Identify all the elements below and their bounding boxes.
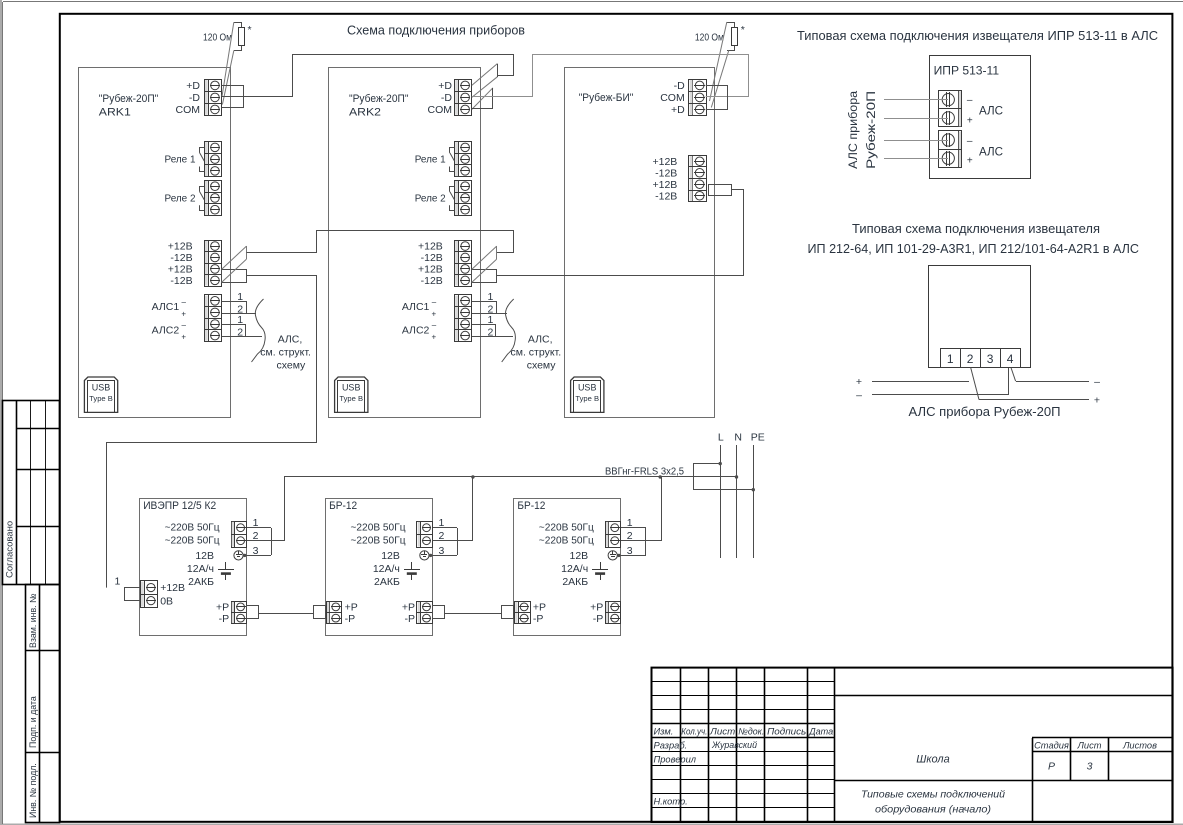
svg-text:Реле 1: Реле 1 bbox=[165, 154, 196, 166]
svg-text:-12В: -12В bbox=[421, 275, 443, 287]
svg-text:см. структ.: см. структ. bbox=[260, 347, 311, 359]
detector box ИП bbox=[929, 266, 1031, 368]
svg-text:"Рубеж-20П": "Рубеж-20П" bbox=[99, 93, 159, 105]
svg-text:Журавский: Журавский bbox=[711, 740, 757, 750]
earth terminal ИВЭПР 12/5 К2 bbox=[234, 551, 243, 560]
svg-text:Листов: Листов bbox=[1122, 741, 1157, 751]
svg-text:Р: Р bbox=[1048, 761, 1055, 773]
svg-text:USB: USB bbox=[342, 383, 361, 393]
svg-text:1: 1 bbox=[439, 517, 445, 529]
sidebar upper table bbox=[3, 401, 60, 585]
svg-text:~220В 50Гц: ~220В 50Гц bbox=[351, 522, 406, 534]
battery symbol ИВЭПР 12/5 К2 bbox=[225, 562, 227, 570]
title block grid left bbox=[680, 668, 682, 822]
junction dot L bbox=[719, 462, 722, 465]
wire - left bbox=[872, 394, 1009, 396]
svg-text:Лист: Лист bbox=[709, 727, 735, 737]
svg-text:Type B: Type B bbox=[339, 394, 363, 403]
terminal strip ИП bbox=[941, 349, 1021, 368]
junction dot earth БР-12 bbox=[429, 554, 432, 557]
PSU box ИВЭПР 12/5 К2 bbox=[140, 499, 247, 636]
wire +12В box1 to box2 bbox=[247, 231, 514, 253]
svg-text:ВВГнг-FRLS 3х2,5: ВВГнг-FRLS 3х2,5 bbox=[605, 466, 684, 477]
line PE bbox=[753, 445, 755, 558]
svg-text:+Р: +Р bbox=[402, 602, 415, 614]
svg-text:+: + bbox=[432, 309, 437, 318]
svg-text:3: 3 bbox=[987, 352, 994, 366]
terminal block ИПР bbox=[939, 91, 962, 127]
twisted pair +12В box1 bbox=[222, 246, 247, 269]
svg-text:–: – bbox=[182, 321, 187, 330]
svg-text:АЛС прибора Рубеж-20П: АЛС прибора Рубеж-20П bbox=[909, 405, 1061, 419]
svg-text:Реле 2: Реле 2 bbox=[415, 192, 446, 204]
svg-text:+12В: +12В bbox=[418, 241, 443, 253]
terminal block ~220В БР-12 bbox=[417, 522, 433, 548]
bracket БР-12 bbox=[645, 528, 647, 555]
relay 2 contact symbol (2) bbox=[450, 187, 455, 192]
svg-text:+: + bbox=[967, 156, 973, 167]
twisted pair symbol box2 X1 bbox=[472, 64, 498, 86]
svg-text:см. структ.: см. структ. bbox=[511, 347, 562, 359]
bracket ИВЭПР 12/5 К2 bbox=[271, 528, 273, 555]
relay 1 contact symbol bbox=[200, 148, 205, 153]
svg-text:2: 2 bbox=[967, 352, 974, 366]
slant from terminal 2 bbox=[971, 367, 979, 399]
wire -12В box2 to box3 bbox=[497, 190, 744, 276]
svg-text:Н.котр.: Н.котр. bbox=[654, 796, 688, 806]
svg-text:Типовая схема подключения изве: Типовая схема подключения извещателя ИПР… bbox=[797, 28, 1158, 43]
slant from terminal 4 bbox=[1011, 368, 1016, 382]
svg-text:Школа: Школа bbox=[916, 753, 950, 765]
svg-text:+12В: +12В bbox=[418, 264, 443, 276]
svg-text:-Р: -Р bbox=[345, 613, 356, 625]
terminal block +12В/0В ИВЭПР bbox=[141, 581, 158, 608]
resistor leads (2) bbox=[727, 23, 735, 28]
svg-text:COM: COM bbox=[176, 104, 201, 116]
АЛС wires box1 bbox=[222, 302, 247, 314]
svg-text:12А/ч: 12А/ч bbox=[187, 563, 214, 575]
terminal block +12В/-12В bbox=[205, 241, 222, 287]
svg-text:Дата: Дата bbox=[808, 727, 833, 737]
svg-text:12В: 12В bbox=[570, 550, 589, 562]
svg-text:АЛС прибора: АЛС прибора bbox=[848, 90, 860, 169]
junction dot earth БР-12 bbox=[617, 554, 620, 557]
svg-text:АЛС: АЛС bbox=[979, 144, 1003, 158]
line N bbox=[736, 445, 738, 558]
svg-text:-D: -D bbox=[441, 92, 452, 104]
svg-text:+: + bbox=[1094, 394, 1100, 406]
svg-text:–: – bbox=[1094, 376, 1100, 388]
svg-text:Реле 1: Реле 1 bbox=[415, 154, 446, 166]
PSU box БР-12 bbox=[514, 499, 621, 636]
svg-text:АЛС1: АЛС1 bbox=[402, 301, 430, 313]
svg-text:–: – bbox=[967, 95, 973, 106]
USB port box1 bbox=[84, 377, 117, 412]
cable box right БР-12 bbox=[433, 606, 445, 619]
svg-text:PE: PE bbox=[751, 431, 765, 443]
svg-text:ИПР 513-11: ИПР 513-11 bbox=[934, 64, 1000, 78]
terminal block +Р/-Р right БР-12 bbox=[417, 602, 433, 624]
svg-text:2АКБ: 2АКБ bbox=[374, 576, 400, 588]
svg-text:+12В: +12В bbox=[168, 241, 193, 253]
svg-text:~220В 50Гц: ~220В 50Гц bbox=[539, 535, 594, 547]
svg-text:2: 2 bbox=[237, 326, 243, 338]
svg-text:ИВЭПР 12/5 К2: ИВЭПР 12/5 К2 bbox=[143, 500, 216, 512]
twisted pair to X1 box3 bbox=[710, 22, 727, 101]
wire -12В box1 down to ИВЭПР bbox=[107, 276, 317, 588]
wire -D box2 to box3 (grey) bbox=[472, 55, 749, 97]
svg-text:2: 2 bbox=[439, 530, 445, 542]
svg-text:2: 2 bbox=[488, 326, 494, 338]
svg-text:1: 1 bbox=[253, 517, 259, 529]
terminal block +Р/-Р right ИВЭПР 12/5 К2 bbox=[232, 602, 247, 624]
svg-text:оборудования (начало): оборудования (начало) bbox=[875, 804, 991, 816]
svg-text:АЛС2: АЛС2 bbox=[402, 324, 430, 336]
wire 2 to mains БР-12 bbox=[621, 477, 662, 541]
title block outer bbox=[652, 668, 1173, 822]
title block right part bbox=[834, 695, 1173, 697]
junction dot bus БР-12 (3) bbox=[659, 475, 662, 478]
svg-text:схему: схему bbox=[527, 360, 557, 372]
svg-text:+: + bbox=[181, 309, 186, 318]
svg-text:"Рубеж-БИ": "Рубеж-БИ" bbox=[579, 92, 634, 104]
earth terminal БР-12 bbox=[420, 551, 429, 560]
svg-text:+: + bbox=[967, 115, 973, 126]
cable brace box2 bbox=[502, 299, 516, 362]
svg-text:1: 1 bbox=[237, 314, 243, 326]
svg-text:12А/ч: 12А/ч bbox=[373, 563, 400, 575]
wire 1 БР-12 bbox=[621, 527, 646, 529]
wire 1 ИВЭПР 12/5 К2 bbox=[247, 527, 271, 529]
wire 3/earth БР-12 bbox=[422, 555, 457, 557]
wire + right bbox=[979, 399, 1089, 401]
svg-text:АЛС,: АЛС, bbox=[528, 334, 553, 346]
svg-text:схему: схему bbox=[277, 360, 307, 372]
svg-text:Подп. и дата: Подп. и дата bbox=[28, 696, 38, 748]
loop +12В box1 bbox=[222, 270, 247, 283]
wire -D box1 to box2 bbox=[222, 55, 514, 97]
svg-text:2: 2 bbox=[253, 530, 259, 542]
junction dot earth ИВЭПР 12/5 К2 bbox=[243, 554, 246, 557]
svg-text:АЛС2: АЛС2 bbox=[152, 324, 180, 336]
svg-text:-Р: -Р bbox=[593, 613, 604, 625]
line L bbox=[720, 445, 722, 558]
svg-text:–: – bbox=[856, 389, 862, 401]
svg-text:12В: 12В bbox=[381, 550, 400, 562]
twisted pair +12В box2 bbox=[472, 246, 497, 269]
battery symbol БР-12 bbox=[411, 562, 413, 570]
svg-text:~220В 50Гц: ~220В 50Гц bbox=[165, 535, 220, 547]
svg-text:+D: +D bbox=[186, 80, 200, 92]
svg-text:"Рубеж-20П": "Рубеж-20П" bbox=[349, 93, 409, 105]
svg-text:USB: USB bbox=[578, 383, 597, 393]
svg-text:Взам. инв. №: Взам. инв. № bbox=[28, 594, 38, 649]
cable brace box1 bbox=[252, 299, 266, 362]
svg-text:Инв. № подл.: Инв. № подл. bbox=[28, 763, 38, 818]
loop +12В box3 bbox=[709, 185, 732, 196]
terminal block АЛС1/АЛС2 bbox=[205, 295, 222, 342]
terminal block Реле 2 (2) bbox=[455, 181, 472, 216]
svg-text:Подпись: Подпись bbox=[767, 727, 806, 737]
svg-text:БР-12: БР-12 bbox=[329, 500, 357, 512]
svg-text:–: – bbox=[967, 136, 973, 147]
svg-text:АЛС,: АЛС, bbox=[278, 334, 303, 346]
svg-text:БР-12: БР-12 bbox=[517, 500, 545, 512]
terminal block X1 box2 bbox=[455, 80, 472, 116]
junction dot N bbox=[735, 475, 738, 478]
terminal block +Р/-Р left БР-12 bbox=[327, 602, 342, 624]
svg-text:1: 1 bbox=[947, 352, 954, 366]
terminal block Реле 1 bbox=[205, 142, 222, 177]
cable box left БР-12 bbox=[314, 606, 326, 619]
svg-text:+: + bbox=[432, 333, 437, 342]
wire +Р ИВЭПР to БР-12 (2) bbox=[259, 613, 313, 615]
svg-text:1: 1 bbox=[488, 314, 494, 326]
svg-text:+12В: +12В bbox=[160, 582, 185, 594]
svg-text:COM: COM bbox=[660, 92, 685, 104]
svg-text:2АКБ: 2АКБ bbox=[188, 576, 214, 588]
svg-text:ИП 212-64, ИП 101-29-А3R1, ИП: ИП 212-64, ИП 101-29-А3R1, ИП 212/101-64… bbox=[808, 241, 1140, 256]
svg-text:3: 3 bbox=[627, 545, 633, 557]
svg-text:Type B: Type B bbox=[89, 394, 113, 403]
svg-text:Type B: Type B bbox=[575, 394, 599, 403]
svg-text:COM: COM bbox=[428, 104, 453, 116]
wires АЛС to ИПР bbox=[884, 99, 948, 101]
svg-text:АЛС1: АЛС1 bbox=[152, 301, 180, 313]
svg-text:3: 3 bbox=[439, 545, 445, 557]
wire stub +12В/0В bbox=[125, 588, 141, 601]
terminal block +Р/-Р left БР-12 bbox=[515, 602, 531, 624]
svg-text:-12В: -12В bbox=[170, 252, 192, 264]
terminal block X1 box3 bbox=[689, 80, 707, 116]
svg-text:120 Ом: 120 Ом bbox=[203, 32, 232, 44]
battery symbol БР-12 bbox=[600, 562, 602, 570]
terminal block X1 +D/-D/COM bbox=[205, 80, 222, 116]
resistor leads (1) bbox=[234, 23, 242, 28]
svg-text:ARK1: ARK1 bbox=[99, 106, 131, 118]
terminal block +12В box3 bbox=[689, 156, 707, 202]
bus ВВГнг-FRLS bbox=[284, 476, 693, 478]
svg-text:Рубеж-20П: Рубеж-20П bbox=[866, 91, 878, 169]
svg-text:USB: USB bbox=[92, 383, 111, 393]
terminal block ~220В ИВЭПР 12/5 К2 bbox=[232, 522, 247, 548]
wire 1 БР-12 bbox=[433, 527, 457, 529]
svg-text:АЛС: АЛС bbox=[979, 104, 1003, 118]
svg-text:1: 1 bbox=[115, 576, 121, 588]
wire - right bbox=[1016, 381, 1089, 383]
loop +12В box2 bbox=[472, 270, 497, 283]
paper border bbox=[2, 2, 4, 824]
svg-text:-12В: -12В bbox=[170, 275, 192, 287]
svg-text:–: – bbox=[182, 297, 187, 306]
svg-text:+: + bbox=[181, 333, 186, 342]
panel Рубеж-20П ARK2 bbox=[329, 68, 481, 418]
svg-text:-Р: -Р bbox=[533, 613, 544, 625]
svg-text:0В: 0В bbox=[160, 595, 173, 607]
svg-text:*: * bbox=[741, 24, 745, 36]
svg-text:~220В 50Гц: ~220В 50Гц bbox=[351, 535, 406, 547]
wire 3/earth БР-12 bbox=[610, 555, 646, 557]
resistor 120 Ом (1) bbox=[239, 28, 245, 46]
wire 3/earth ИВЭПР 12/5 К2 bbox=[236, 555, 271, 557]
svg-text:+D: +D bbox=[671, 104, 685, 116]
svg-text:Изм.: Изм. bbox=[654, 727, 674, 737]
svg-text:Проверил: Проверил bbox=[654, 755, 697, 765]
svg-text:12А/ч: 12А/ч bbox=[561, 563, 588, 575]
svg-text:+Р: +Р bbox=[216, 602, 229, 614]
earth terminal БР-12 bbox=[608, 551, 617, 560]
svg-text:Схема подключения приборов: Схема подключения приборов bbox=[347, 23, 525, 38]
svg-text:+12В: +12В bbox=[652, 179, 677, 191]
terminal block Реле 2 bbox=[205, 181, 222, 216]
svg-text:1: 1 bbox=[237, 291, 243, 303]
junction dot bus БР-12 (2) bbox=[471, 475, 474, 478]
svg-text:~220В 50Гц: ~220В 50Гц bbox=[165, 522, 220, 534]
USB port box2 bbox=[335, 377, 368, 412]
junction dot PE bbox=[752, 488, 755, 491]
loop +D-COM box1 bbox=[222, 86, 244, 108]
АЛС wires box2 bbox=[472, 302, 497, 314]
svg-text:+: + bbox=[856, 376, 862, 388]
svg-text:Согласовано: Согласовано bbox=[5, 521, 16, 578]
PSU box БР-12 bbox=[326, 499, 433, 636]
svg-text:3: 3 bbox=[253, 545, 259, 557]
svg-text:Стадия: Стадия bbox=[1034, 741, 1069, 751]
svg-text:Типовая схема подключения изве: Типовая схема подключения извещателя bbox=[852, 221, 1100, 236]
cable box left БР-12 bbox=[502, 606, 514, 619]
svg-text:Разраб.: Разраб. bbox=[654, 741, 688, 751]
svg-text:Реле 2: Реле 2 bbox=[165, 192, 196, 204]
svg-text:-12В: -12В bbox=[421, 252, 443, 264]
terminal block +Р/-Р right БР-12 bbox=[606, 602, 621, 624]
loop -D/+D box3 bbox=[706, 86, 728, 110]
svg-text:+Р: +Р bbox=[533, 602, 546, 614]
svg-text:2АКБ: 2АКБ bbox=[562, 576, 588, 588]
mains tap bbox=[693, 464, 695, 490]
svg-text:-Р: -Р bbox=[405, 613, 416, 625]
svg-text:Лист: Лист bbox=[1077, 741, 1102, 751]
terminal block ~220В БР-12 bbox=[606, 522, 621, 548]
USB port box3 bbox=[571, 377, 604, 412]
svg-text:-12В: -12В bbox=[655, 167, 677, 179]
svg-text:4: 4 bbox=[1007, 352, 1014, 366]
svg-text:№док.: №док. bbox=[738, 727, 764, 737]
terminal block Реле 1 (2) bbox=[455, 142, 472, 177]
terminal block +12В/-12В (2) bbox=[455, 241, 472, 287]
panel Рубеж-БИ bbox=[565, 68, 715, 418]
bracket БР-12 bbox=[457, 528, 459, 555]
cable box right ИВЭПР 12/5 К2 bbox=[247, 606, 259, 619]
svg-text:1: 1 bbox=[627, 517, 633, 529]
sidebar lower table bbox=[26, 585, 60, 823]
wire 2 to mains БР-12 bbox=[433, 477, 473, 541]
svg-text:+12В: +12В bbox=[168, 264, 193, 276]
twisted pair to X1 box1 bbox=[222, 22, 234, 96]
detector box ИПР 513-11 bbox=[930, 56, 1031, 179]
svg-text:ARK2: ARK2 bbox=[349, 106, 381, 118]
svg-text:+Р: +Р bbox=[345, 602, 358, 614]
panel Рубеж-20П ARK1 bbox=[79, 68, 231, 418]
svg-text:1: 1 bbox=[488, 291, 494, 303]
svg-text:+12В: +12В bbox=[652, 156, 677, 168]
resistor 120 Ом (2) bbox=[732, 28, 738, 46]
svg-text:-12В: -12В bbox=[655, 190, 677, 202]
svg-text:~220В 50Гц: ~220В 50Гц bbox=[539, 522, 594, 534]
svg-text:+D: +D bbox=[438, 80, 452, 92]
svg-text:-D: -D bbox=[189, 92, 200, 104]
terminal block АЛС1/АЛС2 (2) bbox=[455, 295, 472, 342]
svg-text:N: N bbox=[734, 431, 742, 443]
svg-text:120 Ом: 120 Ом bbox=[695, 32, 724, 44]
svg-text:-Р: -Р bbox=[219, 613, 230, 625]
svg-text:+Р: +Р bbox=[590, 602, 603, 614]
svg-text:Типовые схемы подключений: Типовые схемы подключений bbox=[861, 789, 1005, 801]
svg-text:*: * bbox=[248, 24, 252, 36]
svg-text:3: 3 bbox=[1087, 761, 1093, 773]
svg-text:L: L bbox=[718, 431, 724, 443]
svg-text:Кол.уч.: Кол.уч. bbox=[681, 727, 707, 737]
svg-text:-D: -D bbox=[674, 80, 685, 92]
wire +Р БР-12(2) to БР-12(3) bbox=[444, 613, 502, 615]
wire 2 to mains ИВЭПР 12/5 К2 bbox=[247, 477, 285, 541]
wire + left bbox=[872, 381, 969, 383]
svg-text:–: – bbox=[432, 297, 437, 306]
relay 2 contact symbol bbox=[200, 187, 205, 192]
relay 1 contact symbol (2) bbox=[450, 148, 455, 153]
svg-text:–: – bbox=[432, 321, 437, 330]
svg-text:12В: 12В bbox=[195, 550, 214, 562]
svg-text:2: 2 bbox=[627, 530, 633, 542]
